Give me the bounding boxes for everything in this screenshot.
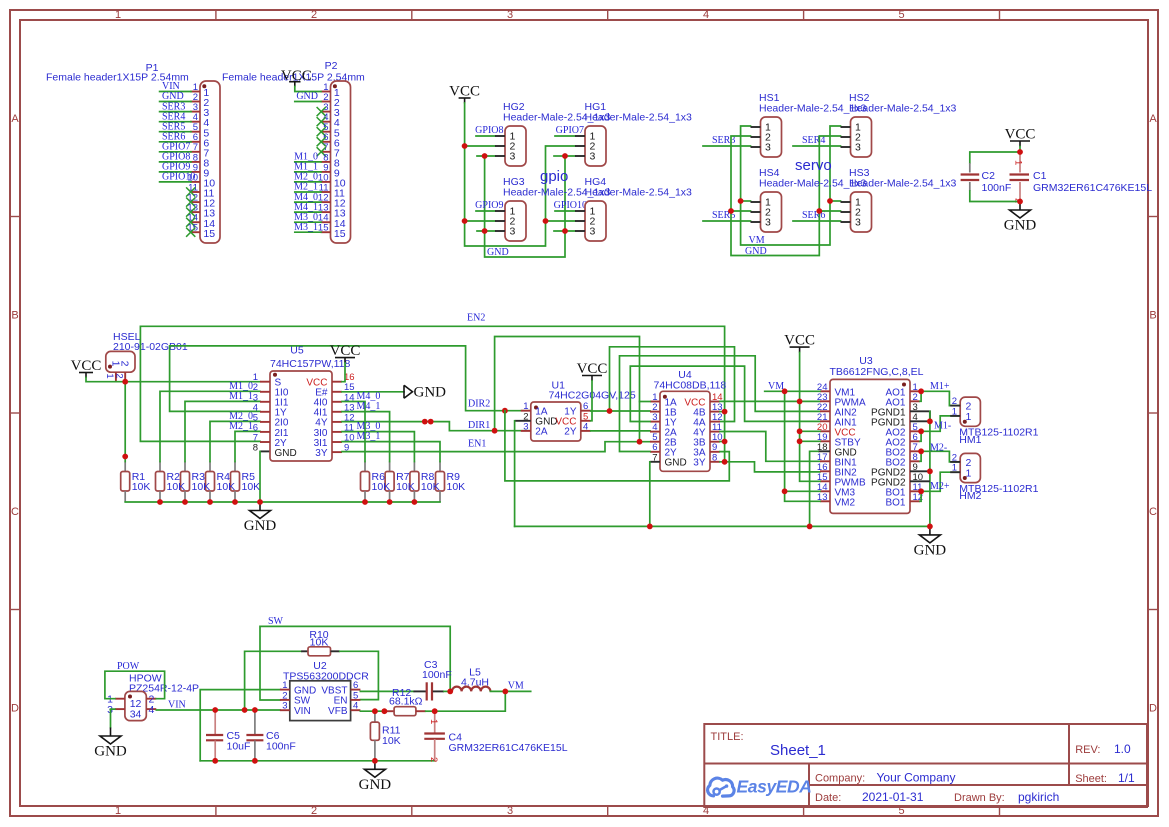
wire HS3 pin1 VM [830, 200, 841, 202]
wire SER4 [793, 145, 841, 147]
U3 pin 19 STBY [817, 432, 861, 449]
P1 pin 4 [160, 111, 210, 129]
wire U3 BO2 pair to M2- [920, 451, 960, 462]
P1 pin 11 [186, 182, 214, 199]
U4 pin 14 VCC [684, 392, 722, 408]
wire VCC to U5 pin16 [342, 363, 345, 382]
svg-text:Your Company: Your Company [877, 771, 956, 785]
wire VM column to VM3 VM2 [785, 391, 820, 501]
connector HS2 Header-Male-2.54_1x3 [841, 92, 957, 157]
P1 pin 14 [186, 213, 215, 230]
P2 pin 10 [294, 172, 346, 190]
U5 pin 11 3I0 [314, 422, 354, 438]
svg-text:1: 1 [966, 467, 972, 479]
wire L5 to VM [490, 690, 530, 692]
ground symbol (POW) [110, 728, 112, 737]
svg-text:POW: POW [117, 661, 140, 672]
svg-text:EN1: EN1 [468, 439, 486, 450]
P1 pin 8 [160, 152, 210, 170]
no-connect X on P2 pin 4 [317, 117, 326, 126]
svg-text:GND: GND [359, 777, 392, 793]
wire net M2_1 to P2 pin 11 [295, 191, 321, 193]
P2 pin 2 [295, 91, 340, 109]
capacitor C3 100nF [413, 659, 451, 701]
wire VCC to U1 pin5 [591, 381, 592, 421]
U4 pin 11 4Y [693, 422, 722, 438]
svg-text:B: B [1149, 310, 1156, 322]
U3 pin 7 BO2 [885, 442, 920, 459]
wire U5 pin15 E# to GND flag [342, 391, 404, 393]
svg-text:Header-Male-2.54_1x3: Header-Male-2.54_1x3 [585, 187, 693, 199]
wire SW net [260, 626, 450, 700]
svg-text:VM2: VM2 [835, 497, 856, 508]
wire U4 pin13 4B to EN2 [720, 411, 725, 413]
wire HG4 pin2 VCC [546, 220, 576, 222]
no-connect X on P2 pin 7 [317, 147, 326, 156]
U4 pin 5 2B [650, 432, 677, 448]
junction dots left resistors [122, 379, 128, 385]
junction dots bottom section [212, 707, 218, 713]
svg-text:GRM32ER61C476KE15L: GRM32ER61C476KE15L [1033, 182, 1152, 194]
U4 pin 3 1Y [650, 412, 677, 428]
wire C3 to SW node [444, 690, 452, 692]
connector HG3 Header-Male-2.54_1x3 [495, 176, 611, 241]
wire R3 to M1_1 [185, 401, 260, 461]
svg-text:M1+: M1+ [930, 381, 950, 392]
U3 pin 15 PWMB [817, 472, 866, 489]
wire U5 pin7 2Y to EN2 run [140, 326, 724, 461]
svg-text:1/1: 1/1 [1118, 771, 1135, 785]
svg-text:A: A [1149, 113, 1157, 125]
wire PGND column [929, 411, 931, 526]
svg-text:3: 3 [282, 701, 287, 712]
wire U5 pin10 M3_1 to R9 [342, 442, 440, 462]
capacitor C5 10uF [206, 710, 250, 761]
svg-text:10K: 10K [310, 637, 329, 649]
wire VCC rail gpio [465, 103, 575, 246]
svg-text:10K: 10K [396, 481, 415, 493]
U4 pin 12 4A [693, 412, 722, 428]
wire U4 pin3 1Y to U3 AIN1 [630, 366, 820, 421]
svg-text:Header-Male-2.54_1x3: Header-Male-2.54_1x3 [849, 103, 957, 115]
svg-text:GND: GND [487, 247, 509, 258]
wire R10 to U2 EN [340, 651, 379, 699]
svg-text:15: 15 [187, 223, 198, 234]
wire U2 GND to bottom rail [200, 690, 280, 761]
svg-text:GRM32ER61C476KE15L: GRM32ER61C476KE15L [449, 742, 568, 754]
svg-text:3: 3 [765, 142, 771, 154]
U5 pin 12 4Y [315, 412, 354, 428]
decoupling caps C1 C2 [961, 127, 1153, 234]
svg-text:TITLE:: TITLE: [711, 731, 744, 743]
wire U5 pin9 EN1 [342, 442, 650, 452]
wire U4 pin9 3A to DIR2 branch [505, 411, 729, 481]
P2 pin 7 [317, 142, 340, 159]
capacitor C1 GRM32ER61C476KE15L [1010, 152, 1153, 203]
wire net SER6 to P1 pin 6 [160, 141, 191, 143]
svg-text:Date:: Date: [815, 792, 841, 804]
P1 pin 2 [160, 91, 210, 109]
power symbol VCC (C1) [1010, 140, 1030, 142]
wire U5 pin13 M4_1 to R7 [342, 412, 390, 462]
U3 pin 1 AO1 [885, 382, 920, 399]
connector HM1 MTB125-1102R1 [950, 396, 1038, 446]
title block [704, 724, 1147, 807]
svg-text:B: B [11, 310, 18, 322]
P1 pin 15 [186, 223, 215, 240]
P2 pin 8 [294, 152, 340, 170]
svg-text:10K: 10K [447, 481, 466, 493]
no-connect X on P1 pin 15 [186, 228, 195, 237]
wire POW pins1-2 loop [105, 671, 165, 699]
wire SER3 [703, 145, 751, 147]
U2 pin 4 VFB [328, 701, 360, 717]
wire GPIO7 [555, 135, 575, 137]
wire U3 pin18 GND to rail [818, 450, 830, 452]
svg-text:VM: VM [768, 381, 784, 392]
U4 pin 8 3Y [693, 452, 720, 468]
svg-text:74HC157PW,118: 74HC157PW,118 [270, 358, 351, 370]
connector HG1 Header-Male-2.54_1x3 [575, 101, 692, 166]
connector HSEL 210-91-02GB01 [104, 331, 188, 382]
ground symbol (R11) [374, 761, 376, 770]
svg-text:VIN: VIN [294, 706, 311, 717]
wire POW pin3 to GND [111, 709, 115, 727]
svg-text:EN2: EN2 [467, 313, 485, 324]
svg-text:EasyEDA: EasyEDA [737, 777, 812, 797]
wire HG3 pin2 VCC [465, 220, 495, 222]
svg-text:2: 2 [119, 361, 131, 367]
svg-text:VCC: VCC [449, 84, 480, 100]
no-connect X on P2 pin 6 [317, 137, 326, 146]
P1 pin 13 [186, 203, 215, 220]
ground flag symbol (U5 E#) [404, 385, 413, 398]
no-connect X on P1 pin 11 [186, 187, 195, 196]
svg-text:GND: GND [94, 744, 127, 760]
wire HG2 pin2 VCC [465, 145, 495, 147]
U5 pin 4 1Y [253, 402, 287, 418]
wire DIR1 branch to U4 pin1/pin5 [495, 337, 640, 442]
wire U4 pin10 3B to EN2 [720, 441, 725, 443]
svg-text:DIR2: DIR2 [468, 399, 490, 410]
U3 pin 22 AIN2 [817, 402, 857, 419]
wire U1 pin4 2Y to U4 pin4 2A [591, 430, 650, 432]
U3 pin 9 PGND2 [871, 462, 920, 479]
connector HS4 Header-Male-2.54_1x3 [751, 167, 867, 232]
wire HS4 pin2 GND [731, 210, 751, 212]
svg-text:C: C [1149, 506, 1157, 518]
svg-text:M2+: M2+ [930, 481, 950, 492]
wire U3 pin20 VCC [800, 430, 820, 432]
resistor R2 10K [156, 462, 165, 503]
U5 pin 5 2I0 [253, 412, 289, 428]
U3 pin 2 AO1 [885, 392, 920, 409]
svg-text:3: 3 [507, 9, 513, 21]
wire SER5 [703, 220, 751, 222]
svg-text:VCC: VCC [784, 333, 815, 349]
svg-text:GND: GND [414, 385, 447, 401]
capacitor C4 GRM32ER61C476KE15L [424, 711, 567, 762]
wire SER6 [793, 220, 841, 222]
resistor R12 68.1kΩ [384, 687, 425, 716]
svg-text:15: 15 [203, 228, 215, 240]
svg-text:100nF: 100nF [266, 741, 296, 753]
svg-text:VCC: VCC [71, 358, 102, 374]
U3 pin 3 PGND1 [871, 402, 920, 419]
svg-text:pgkirich: pgkirich [1018, 790, 1059, 804]
wire net GPIO8 to P1 pin 8 [160, 161, 191, 163]
resistor R10 10K [301, 629, 340, 656]
junction dots U3 [797, 399, 803, 405]
svg-text:10K: 10K [217, 481, 236, 493]
svg-text:GND: GND [296, 91, 318, 102]
U5 pin 16 VCC [306, 372, 354, 388]
svg-text:GND: GND [1004, 218, 1037, 234]
wire HG3 pin3 GND [477, 230, 495, 232]
wire VM rail servo [741, 126, 841, 245]
svg-text:1: 1 [966, 411, 972, 423]
svg-text:10K: 10K [132, 481, 151, 493]
no-connect X on P2 pin 3 [317, 107, 326, 116]
svg-text:gpio: gpio [540, 168, 568, 185]
svg-text:VIN: VIN [168, 700, 186, 711]
connector HS1 Header-Male-2.54_1x3 [751, 92, 867, 157]
U5 pin 8 GND [253, 443, 297, 459]
wire U3 pin14 VM3 [785, 490, 820, 492]
svg-text:C2: C2 [982, 170, 996, 182]
junction dots gpio [462, 143, 468, 149]
U2 pin 1 GND [280, 680, 316, 696]
power symbol VCC (U3) [790, 346, 810, 348]
IC U5 74HC157PW,118 [253, 345, 355, 462]
wire VCC column U3 (PWMA VCC STBY PWMB) [800, 353, 820, 482]
P2 pin 14 [294, 212, 346, 230]
connector HS3 Header-Male-2.54_1x3 [841, 167, 957, 232]
resistor value labels R1-R9 [132, 471, 465, 493]
resistor R4 10K [206, 462, 215, 503]
HSEL pin 2 [124, 372, 126, 382]
svg-text:2Y: 2Y [564, 427, 577, 438]
HSEL pin 1 [115, 372, 117, 382]
U1 pin 6 1Y [564, 401, 591, 417]
wire R12 to C4 node [426, 710, 435, 712]
no-connect X on P2 pin 5 [317, 127, 326, 136]
svg-text:1: 1 [952, 463, 957, 474]
wire GPIO10 [555, 210, 575, 212]
U1 pin 3 2A [521, 421, 548, 437]
svg-text:Company:: Company: [815, 773, 865, 785]
svg-text:SW: SW [268, 616, 284, 627]
wire U2 VFB row [360, 710, 384, 712]
wire U4 pin6 2Y to U3 AIN2 [620, 356, 821, 452]
svg-text:GPIO10: GPIO10 [554, 200, 587, 211]
svg-text:8: 8 [253, 443, 258, 454]
svg-text:8: 8 [712, 452, 717, 463]
wire net GND to P2 pin 2 [295, 101, 321, 103]
ground symbol (resistor rail) [259, 502, 261, 511]
svg-text:68.1kΩ: 68.1kΩ [389, 696, 423, 708]
wire GND rail servo [731, 136, 841, 256]
U4 pin 7 GND [652, 452, 687, 468]
svg-text:REV:: REV: [1075, 744, 1100, 756]
power symbol VCC (U5) [335, 357, 355, 359]
svg-text:GND: GND [244, 518, 277, 534]
wire GPIO9 [476, 210, 495, 212]
svg-text:Header-Male-2.54_1x3: Header-Male-2.54_1x3 [585, 112, 693, 124]
P1 pin 7 [160, 142, 210, 160]
svg-text:servo: servo [795, 157, 832, 174]
svg-text:Sheet_1: Sheet_1 [770, 742, 826, 759]
wire U3 BO1 pair to M2+ [920, 472, 960, 491]
junction dots servo [738, 198, 744, 204]
svg-text:M4_1: M4_1 [357, 401, 381, 412]
U3 pin 17 BIN1 [817, 452, 857, 469]
wire U4 pin1 1A stub wire [640, 401, 651, 403]
svg-text:GPIO8: GPIO8 [475, 125, 503, 136]
svg-text:1: 1 [115, 805, 121, 817]
U4 pin 6 2Y [650, 442, 677, 458]
P1 pin 3 [160, 101, 210, 119]
connector P2 Female header1X15P 2.54mm [222, 60, 365, 243]
P1 pin 9 [160, 162, 210, 180]
U3 pin 8 BO2 [885, 452, 920, 469]
wire VCC to P2 pin 1 [295, 87, 321, 92]
wire U4 pin7 GND to rail [650, 461, 660, 463]
svg-text:10K: 10K [382, 735, 401, 747]
connector HM2 MTB125-1102R1 [950, 452, 1038, 502]
svg-text:GND: GND [275, 448, 297, 459]
svg-text:A: A [11, 113, 19, 125]
wire net M4_1 to P2 pin 13 [295, 211, 321, 213]
wire U3 PGND2 pins to ground column [920, 470, 930, 472]
wire U4 pin11 4Y to U3 BIN1 [720, 432, 820, 462]
P1 pin 6 [160, 131, 210, 149]
wire U3 pin19 STBY [800, 440, 820, 442]
U3 pin 20 VCC [817, 422, 856, 439]
svg-text:1: 1 [115, 9, 121, 21]
svg-text:100nF: 100nF [982, 182, 1012, 194]
wire U4 pin8 3Y to U3 BIN2 [720, 462, 820, 472]
U5 pin 1 S [253, 372, 282, 388]
svg-text:10K: 10K [372, 481, 391, 493]
svg-text:3: 3 [510, 226, 516, 238]
svg-text:VCC: VCC [1005, 127, 1036, 143]
svg-text:M3_1: M3_1 [294, 222, 318, 233]
no-connect X on P1 pin 12 [186, 198, 195, 207]
servo section [703, 92, 957, 257]
wire net GND to P1 pin 2 [160, 101, 191, 103]
svg-text:34: 34 [130, 709, 142, 721]
U1 pin 2 GND [523, 411, 557, 427]
svg-text:VM: VM [508, 681, 524, 692]
svg-text:VFB: VFB [328, 706, 348, 717]
U3 pin 13 VM2 [817, 492, 856, 509]
wire U4 pin14 VCC to U3 PWMA (VCC row) [720, 400, 820, 402]
wire net M2_0 to P2 pin 10 [295, 181, 321, 183]
svg-text:GND: GND [665, 458, 687, 469]
resistor R8 10K [410, 462, 419, 503]
wire net M3_0 to P2 pin 14 [295, 221, 321, 223]
U1 pin 1 1A [521, 401, 548, 417]
connector POW HPOW PZ254R-12-4P [107, 661, 199, 721]
wire HS3 pin2 GND [819, 210, 840, 212]
wire U1 pin2 GND to rail [515, 420, 531, 422]
U3 pin 18 GND [817, 442, 857, 459]
svg-text:10K: 10K [167, 481, 186, 493]
gpio section [449, 84, 692, 259]
svg-text:P2: P2 [325, 60, 338, 72]
svg-text:GND: GND [914, 542, 947, 558]
resistor R1 10K [121, 462, 130, 503]
svg-text:4: 4 [149, 704, 155, 716]
svg-text:HM1: HM1 [959, 434, 981, 446]
wire net VIN to P1 pin 1 [160, 91, 191, 93]
IC U3 TB6612FNG,C,8,EL [817, 355, 924, 513]
P1 pin 10 [160, 172, 216, 190]
U5 pin 14 4I0 [314, 392, 355, 408]
svg-text:3: 3 [590, 151, 596, 163]
power symbol VCC (gpio) [459, 97, 471, 99]
wire U3 PGND1 pins to ground column [920, 411, 930, 421]
wire VCC to U5 pin1 S [86, 378, 260, 382]
svg-text:4.7uH: 4.7uH [461, 677, 489, 689]
junction dots EN2 column [722, 409, 728, 415]
U5 pin 9 3Y [315, 443, 349, 459]
svg-text:2: 2 [428, 757, 439, 762]
P2 pin 3 [317, 102, 340, 119]
U4 pin 13 4B [693, 402, 722, 418]
resistor R5 10K [231, 462, 240, 503]
svg-text:100nF: 100nF [422, 669, 452, 681]
svg-text:VCC: VCC [577, 361, 608, 377]
svg-text:2: 2 [311, 9, 317, 21]
U5 pin 13 4I1 [314, 402, 355, 418]
U2 pin 2 SW [280, 690, 311, 706]
U3 pin 16 BIN2 [817, 462, 857, 479]
svg-text:Sheet:: Sheet: [1075, 773, 1107, 785]
svg-text:3Y: 3Y [315, 448, 328, 459]
svg-text:DIR1: DIR1 [468, 420, 490, 431]
U5 pin 3 1I1 [253, 392, 289, 408]
P2 pin 4 [317, 112, 340, 129]
svg-text:GPIO9: GPIO9 [475, 200, 503, 211]
svg-text:GPIO10: GPIO10 [162, 172, 195, 183]
svg-text:3Y: 3Y [693, 458, 706, 469]
U4 pin 4 2A [650, 422, 677, 438]
U1 pin 5 VCC [555, 411, 590, 427]
svg-text:GND: GND [745, 246, 767, 257]
no-connect X on P1 pin 14 [186, 218, 195, 227]
wire U5 pin8 GND [260, 450, 270, 452]
no-connect X on P1 pin 13 [186, 208, 195, 217]
wire bottom GND rail [200, 760, 435, 762]
svg-text:1: 1 [104, 373, 115, 378]
wire U5 pin11 M3_0 to R8 [342, 432, 414, 462]
wire U3 AO2 pair to M1- [920, 416, 960, 431]
wire R1 pullup from HSEL pin2 [124, 382, 126, 462]
U3 pin 12 BO1 [885, 492, 923, 509]
svg-text:3: 3 [510, 151, 516, 163]
wire U5 pin14 M4_0 to R6 [342, 402, 365, 462]
inductor L5 4.7uH [452, 667, 490, 692]
svg-text:GPIO7: GPIO7 [556, 125, 584, 136]
svg-text:BO1: BO1 [885, 497, 905, 508]
U4 pin 1 1A [650, 392, 677, 408]
U5 pin 7 2Y [253, 433, 287, 449]
svg-text:3: 3 [855, 142, 861, 154]
wire R4 to M2_0 [210, 421, 260, 461]
P2 pin 13 [294, 202, 346, 220]
